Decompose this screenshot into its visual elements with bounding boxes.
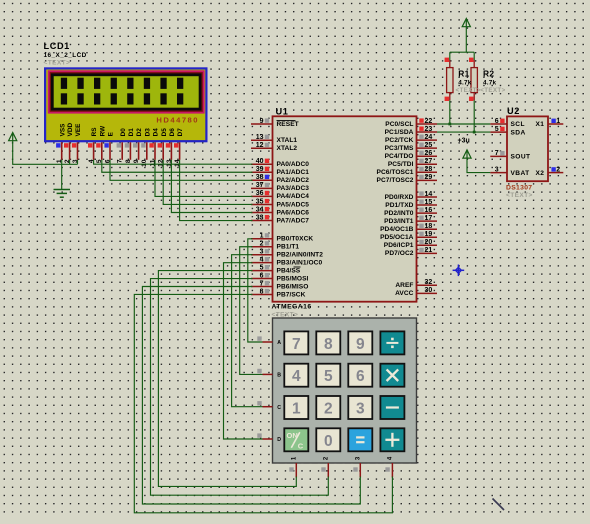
svg-text:<TEXT>: <TEXT> — [456, 87, 481, 94]
U1 pin 35 PA5/ADC5 — [251, 198, 309, 208]
keypad row pin C — [257, 401, 281, 411]
svg-text:8: 8 — [125, 159, 132, 163]
svg-text:PB6/MISO: PB6/MISO — [277, 283, 309, 290]
U1 pin 39 PA1/ADC1 — [251, 166, 309, 176]
U2 pin 7 SOUT — [490, 150, 530, 160]
U1 pin 36 PA4/ADC4 — [251, 190, 309, 200]
wire PC1 to U2 SDA — [437, 131, 490, 133]
svg-text:R1: R1 — [458, 69, 469, 79]
LCD1 display body — [44, 67, 208, 142]
svg-text:X2: X2 — [536, 170, 545, 177]
U1 pin 27 PC5/TDI — [388, 158, 437, 168]
svg-text:PA1/ADC1: PA1/ADC1 — [277, 169, 310, 176]
U1 pin 29 PC7/TOSC2 — [377, 174, 437, 184]
svg-text:4: 4 — [292, 368, 301, 385]
svg-text:5: 5 — [324, 368, 333, 385]
svg-text:3: 3 — [356, 401, 365, 418]
keypad column pin 1 — [289, 456, 297, 477]
svg-text:XTAL1: XTAL1 — [277, 137, 298, 144]
svg-text:E: E — [108, 131, 115, 136]
svg-text:PC5/TDI: PC5/TDI — [388, 161, 414, 168]
U1 ATMEGA16 body — [273, 116, 417, 301]
U2 pin 5 SDA — [490, 126, 525, 136]
svg-text:PD2/INT0: PD2/INT0 — [384, 210, 414, 217]
svg-text:32: 32 — [425, 279, 433, 286]
wire R1 to bus — [449, 100, 451, 124]
svg-text:18: 18 — [425, 223, 433, 230]
svg-text:VSS: VSS — [59, 123, 66, 137]
svg-text:1: 1 — [556, 118, 560, 125]
U1 pin 23 PC1/SDA — [385, 126, 437, 136]
U1 pin 25 PC3/TMS — [385, 142, 437, 152]
svg-text:PA2/ADC2: PA2/ADC2 — [277, 177, 310, 184]
svg-text:29: 29 — [425, 174, 433, 181]
wire PC0 to U2 SCL — [437, 123, 490, 125]
keypad column pin 2 — [321, 456, 329, 477]
svg-text:28: 28 — [425, 166, 433, 173]
U1 pin 17 PD3/INT1 — [384, 215, 437, 225]
svg-text:R2: R2 — [483, 69, 494, 79]
svg-text:4: 4 — [260, 256, 264, 263]
svg-text:SOUT: SOUT — [511, 154, 531, 161]
svg-text:U1: U1 — [276, 107, 289, 117]
origin marker (blue cross) — [453, 265, 465, 277]
wire R2 to bus — [473, 100, 475, 132]
svg-text:D6: D6 — [169, 128, 176, 137]
power symbol (pull-up supply) — [462, 19, 470, 27]
U1 pin 26 PC4/TDO — [385, 150, 437, 160]
keypad button 2 — [316, 396, 340, 419]
svg-text:7: 7 — [292, 336, 301, 353]
keypad button divide — [380, 331, 404, 354]
wire LCD D7 to PA7 — [180, 160, 253, 221]
svg-text:AREF: AREF — [395, 282, 413, 289]
svg-text:PB7/SCK: PB7/SCK — [277, 291, 306, 298]
U2 DS1307 body — [507, 116, 548, 181]
svg-text:8: 8 — [260, 288, 264, 295]
wire +3u to VBAT — [467, 158, 490, 172]
LCD pin 14 D7 — [174, 128, 184, 167]
svg-text:13: 13 — [256, 134, 264, 141]
LCD pin 5 RW — [96, 125, 106, 163]
keypad button 0 — [316, 428, 340, 451]
svg-text:20: 20 — [425, 239, 433, 246]
wire PB3 to keypad row D — [224, 263, 263, 439]
U1 pin 22 PC0/SCL — [385, 118, 437, 128]
U1 pin 18 PD4/OC1B — [380, 223, 437, 233]
keypad button plus — [380, 428, 404, 451]
svg-text:PD3/INT1: PD3/INT1 — [384, 218, 414, 225]
svg-text:33: 33 — [256, 214, 264, 221]
svg-text:37: 37 — [256, 182, 264, 189]
keypad button 3 — [348, 396, 372, 419]
R2 labels — [480, 69, 505, 95]
svg-text:X1: X1 — [536, 121, 545, 128]
LCD pin 10 D3 — [141, 128, 151, 167]
U1 pin 8 PB7/SCK — [251, 288, 306, 298]
svg-text:25: 25 — [425, 142, 433, 149]
U1 pin 9 RESET — [251, 118, 299, 128]
svg-text:8: 8 — [324, 336, 333, 353]
U1 pin 32 AREF — [395, 279, 437, 289]
U1 pin 6 PB5/MOSI — [251, 272, 309, 282]
U1 pin 16 PD2/INT0 — [384, 207, 437, 217]
wire LCD D4 to PA4 — [155, 160, 253, 197]
svg-text:6: 6 — [260, 272, 264, 279]
svg-text:DS1307: DS1307 — [506, 184, 532, 191]
keypad column pin 3 — [353, 456, 361, 477]
keypad body — [273, 318, 417, 463]
svg-text:22: 22 — [425, 118, 433, 125]
mouse cursor stroke — [493, 499, 505, 511]
LCD pin 8 D1 — [125, 128, 135, 163]
wire VDD drop — [69, 160, 71, 165]
svg-text:7: 7 — [260, 280, 264, 287]
svg-text:5: 5 — [260, 264, 264, 271]
svg-text:2: 2 — [260, 241, 264, 248]
U1 pin 37 PA3/ADC3 — [251, 182, 309, 192]
keypad column pin 4 — [385, 456, 393, 477]
resistor R2 4.7k — [469, 58, 477, 101]
svg-text:PD6/ICP1: PD6/ICP1 — [384, 242, 414, 249]
svg-text:PD1/TXD: PD1/TXD — [385, 202, 413, 209]
LCD pin 9 D2 — [133, 128, 143, 163]
svg-text:PB3/AIN1/OC0: PB3/AIN1/OC0 — [277, 259, 323, 266]
ground symbol — [54, 190, 71, 198]
resistor R1 4.7k — [445, 58, 453, 101]
U1 pin 30 AVCC — [395, 287, 437, 297]
svg-text:VBAT: VBAT — [511, 170, 530, 177]
svg-text:PB5/MOSI: PB5/MOSI — [277, 275, 309, 282]
svg-text:PD5/OC1A: PD5/OC1A — [380, 234, 414, 241]
svg-text:21: 21 — [425, 247, 433, 254]
U1 pin 2 PB1/T1 — [251, 241, 299, 251]
svg-text:36: 36 — [256, 190, 264, 197]
R1 labels — [456, 69, 481, 95]
junction R1/SCL — [448, 123, 451, 126]
LCD1 screen — [54, 76, 199, 108]
svg-text:6: 6 — [356, 368, 365, 385]
svg-text:15: 15 — [425, 199, 433, 206]
svg-text:27: 27 — [425, 158, 433, 165]
svg-text:PA6/ADC6: PA6/ADC6 — [277, 209, 310, 216]
svg-text:12: 12 — [256, 142, 264, 149]
U1 pin 5 PB4/SS — [251, 264, 301, 274]
LCD pin 1 VSS — [56, 123, 66, 163]
U2 pin 1 X1 — [536, 118, 564, 128]
svg-text:26: 26 — [425, 150, 433, 157]
wire LCD RS to PA0 — [94, 160, 253, 164]
LCD pin 11 D4 — [149, 128, 159, 167]
LCD pin 3 VEE — [72, 123, 82, 163]
U1 pin 38 PA2/ADC2 — [251, 174, 309, 184]
U1 pin 4 PB3/AIN1/OC0 — [251, 256, 322, 266]
wire PB1 to keypad row B — [240, 247, 263, 375]
U1 pin 34 PA6/ADC6 — [251, 206, 309, 216]
svg-text:2: 2 — [324, 401, 333, 418]
wire power to R1/R2 tops — [450, 27, 474, 60]
svg-text:10: 10 — [141, 159, 148, 167]
svg-text:HD44780: HD44780 — [156, 115, 199, 124]
svg-text:U2: U2 — [507, 106, 520, 116]
svg-text:30: 30 — [425, 287, 433, 294]
wire PB2 to keypad row C — [232, 255, 263, 407]
svg-text:RW: RW — [99, 125, 106, 136]
keypad button 4 — [284, 364, 308, 387]
svg-text:9: 9 — [260, 118, 264, 125]
wire PB6 to keypad column 3 — [142, 287, 360, 505]
svg-text:7: 7 — [495, 150, 499, 157]
svg-text:35: 35 — [256, 198, 264, 205]
svg-text:PB1/T1: PB1/T1 — [277, 244, 300, 251]
svg-text:PA3/ADC3: PA3/ADC3 — [277, 185, 310, 192]
svg-text:PD7/OC2: PD7/OC2 — [385, 250, 414, 257]
svg-text:D0: D0 — [120, 128, 127, 137]
svg-text:+3u: +3u — [458, 137, 470, 144]
keypad button minus — [380, 396, 404, 419]
wire power to VDD/VEE — [13, 141, 78, 164]
U1 pin 33 PA7/ADC7 — [251, 214, 309, 224]
svg-text:34: 34 — [256, 206, 264, 213]
U1 pin 7 PB6/MISO — [251, 280, 308, 290]
svg-text:PC0/SCL: PC0/SCL — [385, 121, 413, 128]
U1 pin 19 PD5/OC1A — [380, 231, 437, 241]
svg-text:XTAL2: XTAL2 — [277, 145, 298, 152]
svg-text:D7: D7 — [177, 128, 184, 137]
U1 pin 12 XTAL2 — [251, 142, 297, 152]
svg-text:VDD: VDD — [67, 123, 74, 137]
wire PB0 to keypad row A — [248, 239, 263, 342]
junction R2/SDA — [473, 131, 476, 134]
LCD pin 7 D0 — [117, 128, 127, 163]
U1 pin 13 XTAL1 — [251, 134, 297, 144]
U1 pin 40 PA0/ADC0 — [251, 158, 309, 168]
LCD pin 2 VDD — [64, 123, 74, 164]
power symbol (LCD supply) — [9, 133, 17, 141]
svg-text:39: 39 — [256, 166, 264, 173]
U2 pin 6 SCL — [490, 118, 525, 128]
svg-text:SDA: SDA — [511, 129, 526, 136]
svg-text:AVCC: AVCC — [395, 290, 414, 297]
svg-text:C: C — [277, 405, 281, 411]
svg-text:23: 23 — [425, 126, 433, 133]
svg-text:LCD1: LCD1 — [44, 41, 70, 51]
svg-text:16: 16 — [425, 207, 433, 214]
wire VSS to ground — [61, 160, 63, 190]
U1 pin 20 PD6/ICP1 — [384, 239, 437, 249]
keypad button 9 — [348, 331, 372, 354]
power symbol +3u — [463, 150, 471, 158]
svg-text:14: 14 — [425, 191, 433, 198]
keypad button 5 — [316, 364, 340, 387]
svg-text:PD4/OC1B: PD4/OC1B — [380, 226, 414, 233]
wire LCD RW to PA1 — [102, 160, 253, 172]
svg-text:38: 38 — [256, 174, 264, 181]
svg-text:A: A — [277, 340, 281, 346]
svg-text:40: 40 — [256, 158, 264, 165]
svg-text:7: 7 — [117, 159, 124, 163]
svg-text:PA4/ADC4: PA4/ADC4 — [277, 193, 310, 200]
keypad row pin B — [257, 369, 281, 379]
wire LCD D5 to PA5 — [163, 160, 252, 205]
svg-text:4.7k: 4.7k — [483, 79, 496, 86]
svg-text:3: 3 — [495, 166, 499, 173]
svg-text:2: 2 — [556, 166, 560, 173]
svg-text:3: 3 — [260, 249, 264, 256]
wire PB5 to keypad column 2 — [151, 279, 329, 496]
svg-text:C: C — [298, 441, 304, 450]
U1 pin 28 PC6/TOSC1 — [377, 166, 437, 176]
svg-text:PD0/RXD: PD0/RXD — [385, 194, 414, 201]
keypad button ON/C — [284, 428, 308, 451]
svg-text:1: 1 — [292, 401, 301, 418]
keypad row pin D — [257, 433, 281, 443]
LCD pin 12 D5 — [158, 128, 168, 167]
U1 pin 14 PD0/RXD — [385, 191, 437, 201]
keypad button equals — [348, 428, 372, 451]
svg-text:D2: D2 — [136, 128, 143, 137]
svg-text:1: 1 — [260, 233, 264, 240]
svg-text:6: 6 — [495, 118, 499, 125]
LCD pin 13 D6 — [166, 128, 176, 167]
wire LCD E to PA2 — [110, 160, 253, 181]
U2 pin 3 VBAT — [490, 166, 529, 176]
svg-text:<TEXT>: <TEXT> — [506, 192, 533, 199]
U1 pin 3 PB2/AIN0/INT2 — [251, 249, 323, 259]
svg-text:RESET: RESET — [277, 121, 299, 128]
svg-text:17: 17 — [425, 215, 433, 222]
svg-text:PA7/ADC7: PA7/ADC7 — [277, 217, 310, 224]
U1 pin 1 PB0/T0XCK — [251, 233, 313, 243]
keypad button 8 — [316, 331, 340, 354]
svg-text:RS: RS — [91, 127, 98, 137]
wire LCD D6 to PA6 — [171, 160, 252, 213]
svg-text:5: 5 — [495, 126, 499, 133]
svg-text:0: 0 — [324, 433, 333, 450]
svg-text:PB2/AIN0/INT2: PB2/AIN0/INT2 — [277, 252, 324, 259]
svg-text:19: 19 — [425, 231, 433, 238]
keypad button 7 — [284, 331, 308, 354]
svg-text:PB4/SS: PB4/SS — [277, 267, 301, 274]
wire PB4 to keypad column 1 — [158, 271, 296, 487]
svg-text:24: 24 — [425, 134, 433, 141]
svg-text:PC1/SDA: PC1/SDA — [385, 129, 414, 136]
svg-text:PA0/ADC0: PA0/ADC0 — [277, 161, 310, 168]
svg-text:PC7/TOSC2: PC7/TOSC2 — [377, 177, 414, 184]
svg-text:PC4/TDO: PC4/TDO — [385, 153, 414, 160]
svg-text:<TEXT>: <TEXT> — [480, 87, 505, 94]
keypad button 6 — [348, 364, 372, 387]
svg-text:<TEXT>: <TEXT> — [44, 60, 71, 67]
wire PB7 to keypad column 4 — [134, 294, 392, 512]
svg-text:VEE: VEE — [75, 123, 82, 137]
svg-text:PC3/TMS: PC3/TMS — [385, 145, 414, 152]
svg-text:PC2/TCK: PC2/TCK — [385, 137, 414, 144]
svg-text:B: B — [277, 373, 281, 379]
svg-text:D1: D1 — [128, 128, 135, 137]
svg-text:9: 9 — [133, 159, 140, 163]
svg-text:D5: D5 — [161, 128, 168, 137]
svg-text:ATMEGA16: ATMEGA16 — [272, 304, 312, 311]
svg-text:16_X_2_LCD: 16_X_2_LCD — [44, 52, 87, 59]
LCD pin 6 E — [104, 131, 114, 163]
svg-text:PC6/TOSC1: PC6/TOSC1 — [377, 169, 414, 176]
svg-text:SCL: SCL — [511, 121, 525, 128]
svg-text:9: 9 — [356, 336, 365, 353]
keypad button multiply — [380, 364, 404, 387]
keypad row pin A — [257, 336, 281, 346]
svg-text:D3: D3 — [144, 128, 151, 137]
wire VEE drop — [77, 160, 79, 165]
svg-text:PB0/T0XCK: PB0/T0XCK — [277, 236, 314, 243]
svg-text:D4: D4 — [153, 128, 160, 137]
svg-text:4.7k: 4.7k — [458, 79, 471, 86]
U1 pin 15 PD1/TXD — [385, 199, 437, 209]
U1 pin 21 PD7/OC2 — [385, 247, 437, 257]
svg-text:D: D — [277, 437, 281, 443]
U1 pin 24 PC2/TCK — [385, 134, 437, 144]
keypad button 1 — [284, 396, 308, 419]
svg-text:PA5/ADC5: PA5/ADC5 — [277, 201, 310, 208]
U2 pin 2 X2 — [536, 166, 564, 176]
LCD pin 4 RS — [88, 127, 98, 163]
